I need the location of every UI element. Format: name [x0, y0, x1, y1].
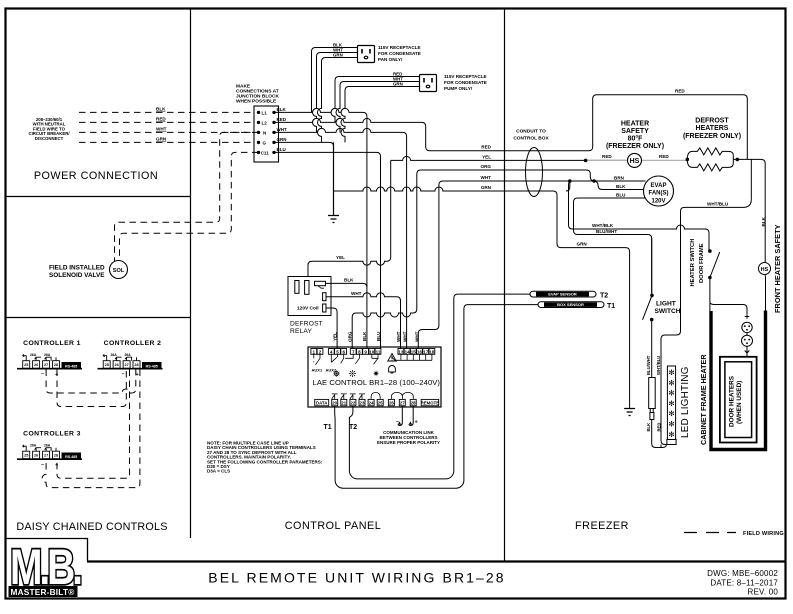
svg-text:DAISY CHAINED CONTROLS: DAISY CHAINED CONTROLS — [16, 521, 167, 533]
label HEATER SAFETY 80F (FREEZER ONLY) — [606, 121, 664, 151]
svg-text:YEL: YEL — [336, 255, 345, 260]
wire BLK into fan — [594, 181, 643, 190]
svg-text:HS: HS — [761, 267, 769, 273]
svg-text:26A: 26A — [125, 353, 132, 357]
LAE control box U1 — [308, 347, 441, 407]
svg-text:CONTROLLER 1: CONTROLLER 1 — [23, 340, 81, 347]
svg-text:BLK: BLK — [616, 184, 626, 189]
svg-text:9: 9 — [364, 349, 367, 354]
svg-text:7: 7 — [352, 349, 355, 354]
svg-text:RED: RED — [659, 154, 669, 159]
svg-text:BLK: BLK — [362, 331, 367, 341]
wire RED row L2 to conduit (hops) — [274, 95, 747, 160]
LAE internal wiring bottom (probe symbols) — [332, 392, 414, 399]
svg-text:RS-485: RS-485 — [65, 455, 77, 459]
field wiring legend — [684, 532, 736, 534]
svg-text:GRN: GRN — [577, 241, 588, 246]
svg-text:WHT/BLU: WHT/BLU — [707, 201, 729, 206]
solenoid valve SOL — [110, 261, 128, 279]
power source text block — [28, 117, 70, 141]
svg-text:L2: L2 — [262, 120, 268, 125]
evap fan circle M1 — [644, 176, 674, 206]
svg-text:D3A = CLS: D3A = CLS — [207, 469, 230, 474]
LED ballast box — [649, 378, 667, 448]
svg-text:BLK: BLK — [761, 216, 766, 226]
controller 1 terminal boxes 25-28 — [23, 361, 30, 369]
svg-text:BLU: BLU — [376, 331, 381, 341]
wire relay coil to LAE T5 — [326, 308, 337, 349]
label DEFROST HEATERS (FREEZER ONLY) — [683, 118, 741, 141]
svg-text:+: + — [415, 420, 418, 426]
light switch S1 — [643, 239, 653, 378]
svg-text:8: 8 — [358, 349, 361, 354]
terminal L1 dots — [257, 111, 260, 114]
svg-text:RED: RED — [156, 116, 166, 121]
LED stars — [668, 368, 675, 439]
svg-text:(FREEZER ONLY): (FREEZER ONLY) — [606, 143, 664, 150]
front heater safety HS2 — [759, 263, 771, 311]
wire WHT from LAE T16 riser to freezer — [418, 181, 645, 349]
wire BLK to rec1 — [312, 48, 358, 113]
wire ORG from LAE riser to conduit — [352, 170, 421, 349]
svg-text:T1: T1 — [324, 424, 332, 431]
wire HS feed with junction dot — [586, 159, 688, 161]
wire BLK relay to T9 — [326, 283, 367, 287]
svg-text:RELAY: RELAY — [290, 328, 313, 335]
rotated wire labels above LAE terminals — [333, 331, 420, 342]
left column divider 1 — [6, 196, 190, 198]
wire dashed N to SOL — [115, 132, 259, 261]
svg-text:EVAP: EVAP — [651, 183, 667, 189]
svg-text:ORG: ORG — [348, 331, 353, 342]
svg-text:115V RECEPTACLE: 115V RECEPTACLE — [444, 74, 487, 79]
terminal REMOTE box — [421, 399, 439, 405]
wire WHT to rec1 (hops rows L1,L2) — [313, 53, 358, 133]
svg-text:26: 26 — [389, 401, 394, 406]
svg-text:T2: T2 — [600, 293, 608, 300]
svg-text:GRN: GRN — [333, 53, 343, 58]
svg-text:RS-485: RS-485 — [146, 364, 158, 368]
svg-text:FOR CONDENSATE: FOR CONDENSATE — [378, 51, 421, 56]
controller 3 — [17, 431, 82, 469]
wire C1 27- down right up to C2 — [46, 370, 136, 394]
svg-text:✻: ✻ — [668, 420, 675, 429]
svg-text:RED: RED — [481, 145, 491, 150]
svg-text:1: 1 — [313, 349, 316, 354]
svg-text:ORG: ORG — [481, 164, 492, 169]
terminal N dots — [257, 131, 260, 134]
svg-text:DEFROST: DEFROST — [290, 321, 323, 328]
wire C2 27 long loop to C3 — [57, 370, 130, 479]
svg-text:FIELD INSTALLED: FIELD INSTALLED — [49, 265, 105, 272]
svg-text:26A: 26A — [30, 444, 37, 448]
communication link note — [377, 430, 440, 445]
ground symbol (freezer GRN) — [624, 409, 635, 416]
cabinet frame heater (thick loop) — [711, 311, 766, 450]
svg-text:HEATER SWITCH: HEATER SWITCH — [690, 239, 696, 287]
svg-text:T2: T2 — [349, 424, 357, 431]
wire WHT field feeder (dashed) — [79, 131, 255, 133]
svg-text:BOX SENSOR: BOX SENSOR — [557, 302, 584, 307]
LAE top terminal row — [311, 349, 435, 355]
svg-text:BLK: BLK — [156, 106, 166, 111]
svg-text:RED: RED — [277, 117, 287, 122]
svg-text:CONTROLLER 3: CONTROLLER 3 — [23, 431, 81, 438]
wire GRN to rec1 (hops rows L1,L2,N) — [318, 58, 358, 143]
svg-text:RED: RED — [602, 154, 612, 159]
controller 1 strip — [17, 368, 82, 370]
wire BLK field feeder (dashed) — [79, 111, 255, 113]
svg-text:FRONT HEATER SAFETY: FRONT HEATER SAFETY — [773, 224, 782, 313]
svg-text:C11: C11 — [261, 150, 270, 155]
wire BLU row C11 to LAE T11 — [274, 152, 381, 348]
relay pin BLK rect — [315, 281, 326, 285]
svg-text:REMOTE: REMOTE — [421, 401, 440, 406]
svg-text:18: 18 — [429, 349, 435, 354]
svg-text:WHT/BLU: WHT/BLU — [656, 356, 661, 375]
svg-text:LIGHT: LIGHT — [656, 301, 676, 308]
terminal L2 dots — [257, 121, 260, 124]
svg-text:25: 25 — [24, 363, 28, 367]
svg-text:115V RECEPTACLE: 115V RECEPTACLE — [378, 45, 421, 50]
wire GRN to BRN node riser — [566, 181, 570, 191]
defrost icon link — [341, 354, 354, 363]
svg-text:DEFROST: DEFROST — [695, 118, 729, 125]
svg-text:AUX1: AUX1 — [312, 368, 323, 373]
wire GRN branch to freezer (hops bundle verticals) — [334, 187, 630, 409]
aux1 contact — [314, 354, 320, 365]
LAE bottom terminal row — [315, 399, 439, 405]
svg-text:HEATERS: HEATERS — [696, 125, 729, 132]
svg-text:WHT: WHT — [277, 127, 287, 132]
svg-text:26A: 26A — [44, 444, 51, 448]
multiple case note text — [207, 441, 323, 474]
wire BLK row L1 to LAE T9 (hops rec wires) — [274, 108, 367, 348]
hook wire — [23, 354, 27, 361]
controller 2 terminal boxes 25-28 — [103, 361, 110, 369]
svg-text:BLU/WHT: BLU/WHT — [646, 355, 651, 375]
svg-text:26A: 26A — [44, 353, 51, 357]
heater switch door frame S2 — [710, 252, 747, 315]
wire GRN row G to ground and conduit — [274, 142, 334, 191]
defrost heaters R1 R2 (parallel resistors) — [687, 148, 765, 263]
relay internal contact bars — [295, 281, 299, 294]
left column divider 2 — [6, 317, 190, 319]
wire RED to rec2 (hop row L1) — [331, 77, 420, 123]
svg-text:27: 27 — [400, 401, 405, 406]
svg-text:EVAP SENSOR: EVAP SENSOR — [548, 292, 577, 297]
controller 3 RS-485 box — [62, 453, 82, 460]
wire WHT relay to LAE T13 — [326, 293, 401, 349]
door heater connector plugs — [742, 315, 753, 357]
svg-text:✷: ✷ — [372, 369, 380, 379]
svg-text:27: 27 — [124, 363, 128, 367]
svg-text:GRN: GRN — [393, 82, 403, 87]
controller 1 — [17, 340, 82, 378]
svg-text:FREEZER: FREEZER — [575, 520, 629, 532]
svg-text:25: 25 — [24, 454, 28, 458]
svg-text:BRN: BRN — [614, 175, 625, 180]
logo cell top — [5, 539, 88, 562]
svg-text:DISCONNECT: DISCONNECT — [35, 136, 64, 141]
svg-text:26: 26 — [114, 363, 118, 367]
svg-text:27: 27 — [44, 454, 48, 458]
svg-text:(FREEZER ONLY): (FREEZER ONLY) — [683, 133, 741, 140]
svg-text:120V Coil: 120V Coil — [297, 306, 319, 312]
wire dashed C11 to SOL — [120, 152, 259, 260]
svg-text:26: 26 — [34, 454, 38, 458]
defrost heater node dots — [686, 158, 690, 162]
svg-text:WHEN POSSIBLE: WHEN POSSIBLE — [236, 99, 277, 105]
junction dots fan feed — [568, 179, 572, 183]
wire GRN to rec2 (hops rows L1,L2,N) — [341, 87, 420, 143]
svg-text:25: 25 — [378, 401, 383, 406]
svg-text:FIELD WIRING: FIELD WIRING — [743, 531, 784, 537]
relay pin 2 — [323, 293, 326, 301]
terminal G dots — [257, 141, 260, 144]
wire YEL vertical from conduit to defrost relay — [308, 160, 391, 276]
footer separator line — [87, 560, 785, 562]
daisy chain dashed wiring C1 to C2 — [42, 370, 140, 488]
svg-text:CONDUIT TO: CONDUIT TO — [516, 129, 546, 135]
junction block J1 — [254, 106, 279, 162]
svg-text:–: – — [41, 462, 44, 468]
terminal C11 dots — [257, 151, 260, 154]
svg-text:26A: 26A — [30, 353, 37, 357]
wire T1 sensor loop (LAE 20 to box sensor) — [335, 294, 538, 488]
svg-text:CONTROL BOX: CONTROL BOX — [513, 136, 549, 142]
svg-text:26A: 26A — [111, 353, 118, 357]
wire GRN field feeder (dashed) — [79, 141, 255, 143]
svg-text:10: 10 — [369, 349, 375, 354]
communication link wires 27 28 — [398, 406, 413, 426]
wire WHT/BLK from dot down and right (hop at 680.5) — [569, 181, 710, 251]
svg-text:SWITCH: SWITCH — [655, 308, 681, 315]
svg-text:FAN(S): FAN(S) — [649, 191, 669, 197]
defrost relay K1 box — [288, 277, 331, 316]
svg-text:BLK: BLK — [646, 423, 651, 432]
svg-text:FOR CONDENSATE: FOR CONDENSATE — [444, 80, 487, 85]
svg-text:WHT: WHT — [396, 331, 401, 342]
vertical divider right — [504, 9, 506, 561]
controller 3 terminal boxes 25-28 — [23, 451, 30, 459]
wire C2 28 long loop to C3 — [42, 370, 140, 488]
svg-text:PUMP ONLY!: PUMP ONLY! — [444, 86, 473, 91]
svg-text:REV. 00: REV. 00 — [748, 588, 779, 597]
receptacle 115V condensate pump — [420, 75, 437, 92]
wire YEL horizontal to conduit — [391, 156, 627, 160]
svg-text:14: 14 — [405, 349, 411, 354]
svg-text:WHT: WHT — [481, 175, 492, 180]
svg-text:15: 15 — [411, 349, 417, 354]
svg-text:HS: HS — [630, 158, 640, 165]
box sensor T1 — [538, 302, 604, 308]
svg-text:24: 24 — [369, 401, 374, 406]
svg-text:22: 22 — [351, 401, 356, 406]
icon alarm bell — [389, 365, 396, 373]
svg-text:✻: ✻ — [668, 409, 675, 418]
svg-text:28: 28 — [54, 454, 58, 458]
svg-text:CONTROLLER 2: CONTROLLER 2 — [104, 340, 162, 347]
svg-text:✻: ✻ — [668, 399, 675, 408]
LED lighting strip — [667, 366, 676, 445]
svg-text:SAFETY: SAFETY — [621, 128, 649, 135]
svg-text:BEL REMOTE UNIT WIRING BR1: BEL REMOTE UNIT WIRING BR1–28 — [208, 570, 505, 586]
svg-text:27: 27 — [44, 363, 48, 367]
conduit wire labels — [481, 145, 492, 190]
svg-text:23: 23 — [360, 401, 365, 406]
svg-text:✻: ✻ — [668, 389, 675, 398]
door heaters box (double rect) — [720, 357, 757, 443]
svg-text:YEL: YEL — [482, 154, 491, 159]
jumper arcs terminals 26-28 — [391, 392, 413, 399]
controller 2 — [98, 340, 163, 378]
relay pin 3 — [323, 304, 326, 312]
wire WHT to rec2 (hops rows L1,L2) — [336, 82, 420, 133]
svg-text:✻: ✻ — [668, 378, 675, 387]
wire BRN into fan — [566, 181, 709, 293]
svg-text:DATE: 8–11–2017: DATE: 8–11–2017 — [710, 579, 778, 588]
wire RED field feeder (dashed) — [79, 121, 255, 123]
evap sensor T2 — [530, 291, 596, 297]
wire WHT row N to LAE T14 (hops) — [274, 128, 407, 348]
icon alarm triangle — [388, 354, 396, 374]
svg-text:26: 26 — [34, 363, 38, 367]
vertical divider left — [190, 9, 192, 538]
aux2 contact — [331, 354, 337, 362]
junction block note text — [236, 84, 279, 105]
wire ORG horizontal — [421, 170, 645, 181]
svg-text:28: 28 — [134, 363, 138, 367]
svg-text:ENSURE PROPER POLARITY: ENSURE PROPER POLARITY — [377, 440, 440, 445]
svg-text:T1: T1 — [607, 303, 615, 310]
svg-text:25: 25 — [105, 363, 109, 367]
svg-text:120V: 120V — [651, 199, 665, 205]
wire BLU into fan — [574, 198, 652, 293]
svg-text:(WHEN USED): (WHEN USED) — [736, 381, 743, 424]
svg-text:BLU/WHT: BLU/WHT — [596, 229, 617, 234]
svg-text:16: 16 — [417, 349, 423, 354]
svg-text:RED: RED — [675, 89, 685, 94]
svg-text:17: 17 — [423, 349, 429, 354]
svg-text:4: 4 — [330, 349, 333, 354]
svg-text:MASTER-BILT®: MASTER-BILT® — [11, 588, 75, 597]
relay output bus 13-18 — [401, 354, 432, 360]
svg-text:GRN: GRN — [481, 185, 492, 190]
svg-text:SOL: SOL — [113, 268, 125, 274]
svg-text:5: 5 — [336, 349, 339, 354]
svg-text:BLK: BLK — [277, 107, 287, 112]
light switch lower dot — [650, 318, 654, 322]
svg-text:20: 20 — [332, 401, 337, 406]
controller 1 RS-485 box — [62, 362, 82, 369]
svg-text:BLK: BLK — [344, 277, 354, 282]
svg-text:6: 6 — [342, 349, 345, 354]
svg-text:WHT: WHT — [351, 291, 362, 296]
svg-text:LED LIGHTING: LED LIGHTING — [680, 366, 691, 438]
svg-text:DOOR HEATERS: DOOR HEATERS — [729, 375, 736, 427]
svg-text:YEL: YEL — [333, 332, 338, 341]
svg-text:SOLENOID VALVE: SOLENOID VALVE — [49, 272, 105, 279]
svg-text:WHT: WHT — [402, 331, 407, 342]
heater safety HS circle — [628, 153, 642, 167]
svg-text:G: G — [263, 140, 267, 145]
svg-text:WHT: WHT — [156, 126, 167, 131]
svg-text:80°F: 80°F — [628, 135, 644, 143]
fan icon link — [355, 354, 359, 364]
svg-text:RS-485: RS-485 — [65, 364, 77, 368]
svg-text:DATA: DATA — [316, 401, 327, 406]
wire T2 sensor loop (LAE 22 to evap sensor) — [349, 294, 530, 479]
svg-text:11: 11 — [376, 349, 381, 354]
receptacle 115V condensate pan — [358, 46, 375, 63]
svg-text:–: – — [41, 372, 44, 378]
svg-text:LAE CONTROL BR1–28 (100–240: LAE CONTROL BR1–28 (100–240V) — [313, 378, 441, 387]
svg-text:WHT/BLK: WHT/BLK — [592, 223, 614, 228]
svg-text:BLU: BLU — [277, 147, 286, 152]
svg-text:DOOR FRAME: DOOR FRAME — [699, 243, 705, 283]
svg-text:✻: ✻ — [668, 368, 675, 377]
ground symbol (junction block) — [328, 142, 339, 222]
svg-text:–: – — [396, 419, 399, 425]
svg-text:WHT: WHT — [415, 331, 420, 342]
svg-text:DWG: MBE–60002: DWG: MBE–60002 — [707, 569, 778, 578]
LAE internal wiring top — [314, 354, 432, 365]
svg-text:21: 21 — [341, 401, 346, 406]
svg-text:13: 13 — [398, 349, 404, 354]
svg-text:N: N — [263, 130, 266, 135]
light icon link — [372, 354, 378, 364]
svg-text:POWER CONNECTION: POWER CONNECTION — [34, 170, 158, 182]
svg-text:GRN: GRN — [156, 136, 167, 141]
conduit ellipse — [526, 148, 543, 197]
svg-text:RED: RED — [657, 423, 662, 432]
svg-text:HEATER: HEATER — [621, 121, 649, 128]
svg-text:GRN: GRN — [277, 137, 287, 142]
junction dot HS feed — [584, 159, 588, 163]
svg-text:CABINET FRAME HEATER: CABINET FRAME HEATER — [699, 354, 708, 445]
wire WHT/BLU from defrost node to LED lighting — [661, 199, 751, 444]
svg-text:2: 2 — [319, 349, 322, 354]
svg-text:28: 28 — [54, 363, 58, 367]
svg-text:–: – — [122, 372, 125, 378]
master-bilt logo — [9, 538, 81, 597]
controller 2 RS-485 box — [142, 362, 162, 369]
wire C1 28+ down right up to C2 — [57, 370, 126, 407]
wire stub defrost node down — [750, 159, 752, 199]
heater switch lower dot — [708, 276, 712, 280]
jumper brackets — [35, 357, 56, 361]
svg-text:L1: L1 — [262, 110, 268, 115]
controller 2 hook and jumpers — [103, 354, 107, 361]
svg-text:✻: ✻ — [668, 430, 675, 439]
svg-text:BLU: BLU — [616, 192, 626, 197]
svg-text:PAN ONLY!: PAN ONLY! — [378, 57, 403, 62]
svg-text:CONTROL PANEL: CONTROL PANEL — [285, 520, 382, 532]
svg-text:28: 28 — [411, 401, 416, 406]
